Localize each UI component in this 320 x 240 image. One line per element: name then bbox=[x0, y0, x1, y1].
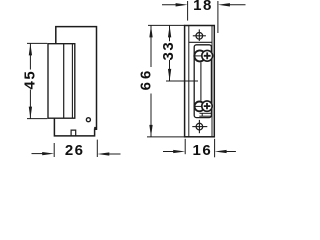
keeper lower inner line 2 bbox=[199, 115, 212, 117]
left view body outline bbox=[54, 27, 96, 136]
bottom roller right circle bbox=[202, 101, 212, 111]
keeper box rounded rect bbox=[194, 45, 211, 118]
dim 16 left extension line bbox=[184, 139, 186, 154]
dim 26 right extension line bbox=[96, 140, 98, 157]
bottom roller slot line bbox=[195, 105, 202, 107]
dim 33 line lower segment bbox=[169, 60, 171, 81]
keeper lower inner line 1 bbox=[200, 112, 212, 114]
svg-text:45: 45 bbox=[22, 70, 39, 90]
dim 26 left extension line bbox=[53, 143, 55, 157]
top roller slot line bbox=[195, 55, 203, 57]
svg-text:26: 26 bbox=[65, 142, 85, 159]
dim 33 line upper segment bbox=[169, 25, 171, 41]
dim 66 line upper segment bbox=[150, 25, 152, 67]
dim 18 left arrow and tail bbox=[162, 4, 179, 6]
dim 26 left arrow and tail bbox=[32, 153, 46, 155]
bottom screw vertical crosshair bbox=[198, 120, 200, 133]
opening top line bbox=[189, 41, 212, 43]
bottom screw circle bbox=[196, 123, 203, 130]
top roller left circle bbox=[194, 50, 205, 61]
svg-text:18: 18 bbox=[193, 0, 213, 14]
left view keeper rectangle bbox=[48, 44, 75, 119]
keeper inner line A bbox=[63, 44, 65, 119]
dim 18 left extension line bbox=[187, 1, 189, 21]
bottom roller phillips cross bbox=[204, 103, 211, 109]
svg-text:16: 16 bbox=[193, 142, 213, 159]
bottom screw horizontal crosshair bbox=[192, 126, 207, 128]
dim 45 line lower segment bbox=[29, 90, 31, 119]
svg-text:66: 66 bbox=[137, 68, 154, 91]
dim 16 left arrow and tail bbox=[163, 151, 176, 153]
dim 18 right arrow and tail bbox=[227, 4, 246, 6]
dim 45 down arrow bbox=[29, 107, 32, 119]
dim 66 up arrow bbox=[149, 25, 152, 37]
faceplate inner right line bbox=[211, 26, 213, 137]
dim 45 up arrow bbox=[29, 43, 32, 55]
bottom roller left circle bbox=[195, 102, 205, 112]
left view screw hole circle bbox=[86, 118, 90, 122]
top screw horizontal crosshair bbox=[193, 35, 206, 37]
top screw vertical crosshair bbox=[198, 29, 200, 41]
dim 26 right arrow and tail bbox=[106, 153, 120, 155]
dim 66 down arrow bbox=[149, 125, 152, 137]
dim 45 line upper segment bbox=[29, 43, 31, 69]
top roller right circle bbox=[202, 50, 213, 61]
right view faceplate rectangle bbox=[185, 26, 215, 137]
svg-text:33: 33 bbox=[160, 41, 177, 61]
latch edge line bbox=[200, 62, 202, 100]
dim 16 right extension line bbox=[214, 139, 216, 158]
faceplate inner left line bbox=[188, 26, 190, 137]
dim 33 up arrow bbox=[168, 25, 171, 37]
dim 66 line lower segment bbox=[150, 94, 152, 137]
dim 16 right arrow and tail bbox=[223, 151, 236, 153]
top screw circle bbox=[196, 33, 203, 40]
dim 33 bottom extension line bbox=[166, 80, 198, 82]
dim 33 down arrow bbox=[168, 69, 171, 81]
dim 66 bottom extension line bbox=[147, 136, 185, 138]
left view bottom-right step notch bbox=[94, 127, 97, 129]
dim 18 right extension line bbox=[217, 1, 219, 33]
dim 45 top extension line bbox=[27, 42, 47, 44]
dim 45 bottom extension line bbox=[27, 118, 47, 120]
dims 33 66 top extension line bbox=[148, 24, 185, 26]
left view bottom tab bbox=[71, 130, 76, 136]
keeper inner line B bbox=[71, 44, 73, 119]
keeper lower tick bbox=[201, 113, 203, 116]
top roller phillips cross bbox=[204, 52, 211, 59]
